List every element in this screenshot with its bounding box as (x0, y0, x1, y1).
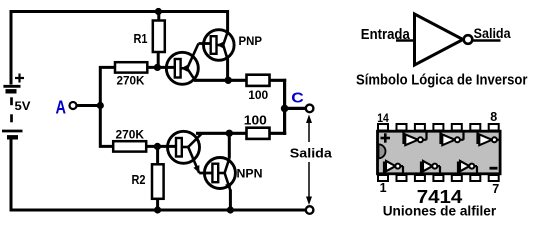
transistor PNP output (204, 30, 235, 61)
junction Q1 base node (154, 64, 161, 71)
svg-text:Entrada: Entrada (361, 27, 411, 43)
gate D inside IC (384, 161, 403, 174)
pin 14 (378, 124, 388, 131)
resistor R2 (152, 164, 164, 199)
IC notch (379, 144, 386, 158)
pin 3 (415, 175, 425, 181)
battery B1 top long plate (3, 85, 20, 88)
wire 270K bottom to Q2 base node (146, 145, 176, 148)
svg-text:7: 7 (492, 182, 499, 196)
wire Q1 emitter to output row (194, 79, 247, 82)
battery B1 bottom long plate (2, 130, 23, 133)
svg-text:C: C (291, 89, 304, 106)
pin 13 (397, 124, 407, 131)
transistor Q1 (PNP driver) (166, 44, 198, 85)
wire R1 bottom lead (157, 52, 160, 67)
pin 6 (470, 175, 480, 181)
wire 270K top to Q1 base node (147, 66, 174, 69)
wire R2 top lead (156, 146, 159, 164)
arrow up to C terminal (308, 119, 310, 142)
svg-text:Salida: Salida (474, 25, 511, 41)
resistor 270K top (115, 62, 147, 72)
wire top +5V rail (10, 10, 228, 13)
IC minus mark (490, 167, 498, 170)
wire Q1 collector to PNP base (199, 42, 211, 45)
pin 7 (489, 175, 499, 181)
inverter output wire (473, 39, 501, 42)
pin 4 (433, 175, 443, 181)
wire 100 top to right vertical (270, 79, 287, 82)
wire battery top lead (10, 10, 13, 85)
wire Q2 emitter to NPN base (199, 172, 212, 175)
svg-text:1: 1 (380, 181, 387, 195)
resistor R1 (153, 21, 165, 53)
battery dashed middle (omitted cells) (10, 97, 13, 105)
svg-text:R2: R2 (132, 173, 146, 187)
svg-text:R1: R1 (134, 32, 148, 46)
svg-text:270K: 270K (116, 127, 145, 141)
junction input node (97, 102, 104, 109)
junction NPN emitter ground (227, 206, 234, 213)
svg-text:Salida: Salida (290, 146, 333, 161)
junction Q2 base node (154, 143, 161, 150)
arrow down to bottom terminal (308, 162, 310, 198)
wire NPN collector up (228, 133, 231, 158)
wire PNP emitter drop from rail (226, 10, 229, 34)
wire 100 bottom to right vertical (270, 132, 287, 135)
transistor Q2 (NPN driver) (168, 131, 203, 173)
inverter gate triangle (415, 14, 464, 65)
svg-text:8: 8 (490, 110, 497, 124)
pin 8 (489, 124, 499, 131)
wire NPN emitter to ground (229, 190, 232, 211)
wire input vertical with branches (100, 66, 115, 148)
svg-text:270K: 270K (117, 74, 145, 88)
resistor 100 bottom (247, 128, 270, 139)
gate F inside IC (458, 161, 477, 174)
pin 2 (397, 175, 407, 181)
gate E inside IC (421, 161, 440, 174)
svg-text:PNP: PNP (239, 36, 263, 48)
gate A inside IC (404, 132, 427, 146)
svg-text:Uniones de alfiler: Uniones de alfiler (383, 203, 497, 219)
battery B1 top short plate (6, 89, 17, 93)
junction R2 ground (154, 206, 161, 213)
resistor 270K bottom (113, 141, 146, 151)
transistor NPN output (204, 158, 235, 191)
wire R2 bottom lead (156, 199, 159, 210)
svg-text:100: 100 (248, 88, 268, 102)
inverter bubble (464, 35, 473, 44)
junction top rail / R1 (155, 8, 162, 15)
wire output right vertical (283, 79, 286, 135)
battery plus sign (15, 74, 24, 83)
pin 11 (433, 124, 443, 131)
resistor 100 top (247, 75, 270, 86)
pin 9 (470, 124, 480, 131)
svg-text:14: 14 (377, 111, 389, 125)
inverter gate symbol: input wire (396, 39, 414, 42)
wire battery bottom lead (10, 140, 13, 212)
IC U1 7414 body (378, 131, 501, 174)
junction output node C (281, 105, 289, 113)
pin 12 (415, 124, 425, 131)
wire bottom collector row (196, 132, 247, 135)
junction bottom collector node (226, 130, 233, 137)
wire bottom ground rail (10, 209, 307, 212)
wire to terminal C (285, 107, 306, 110)
svg-text:Símbolo Lógica de Inversor: Símbolo Lógica de Inversor (356, 72, 528, 88)
terminal C open circle (306, 105, 314, 113)
pin 5 (452, 175, 462, 181)
svg-text:NPN: NPN (237, 167, 263, 181)
terminal bottom output open circle (306, 206, 314, 214)
pin 10 (452, 124, 462, 131)
gate B inside IC (441, 132, 464, 146)
pin 1 (378, 175, 388, 181)
svg-text:100: 100 (244, 112, 267, 127)
wire from A to input vertical (77, 104, 101, 107)
IC plus mark (381, 133, 391, 142)
svg-text:5V: 5V (15, 99, 31, 113)
battery B1 bottom short plate (7, 135, 18, 139)
junction top output node (225, 77, 232, 84)
svg-text:A: A (56, 98, 67, 118)
wire R1 top lead (157, 12, 160, 22)
wire PNP collector down (226, 59, 229, 81)
gate C inside IC (478, 132, 500, 146)
terminal A open circle (70, 102, 77, 109)
